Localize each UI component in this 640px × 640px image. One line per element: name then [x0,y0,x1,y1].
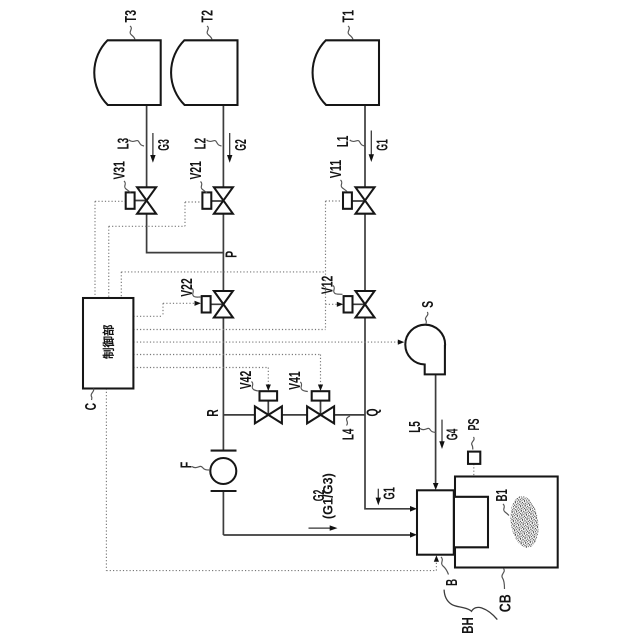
svg-text:T2: T2 [200,10,217,23]
svg-text:G3: G3 [156,139,173,151]
svg-text:V41: V41 [287,371,304,390]
svg-text:V11: V11 [328,159,345,178]
svg-text:Q: Q [365,409,382,417]
svg-text:L5: L5 [407,421,424,433]
svg-text:G1: G1 [375,139,392,151]
svg-text:B1: B1 [494,489,511,502]
svg-text:G1: G1 [382,487,399,500]
svg-text:(G1/G3): (G1/G3) [321,473,336,519]
svg-text:B: B [444,579,461,586]
svg-text:BH: BH [460,617,477,634]
svg-text:S: S [420,301,437,308]
svg-text:V22: V22 [179,278,196,297]
svg-text:CB: CB [498,594,515,612]
svg-text:F: F [179,462,196,469]
svg-text:V31: V31 [111,161,128,180]
svg-text:P: P [224,251,241,258]
svg-text:T3: T3 [123,10,140,23]
svg-text:L4: L4 [340,428,357,440]
svg-text:V42: V42 [238,371,255,390]
svg-text:G2: G2 [233,139,250,151]
svg-text:G4: G4 [445,428,462,440]
svg-text:C: C [83,403,100,411]
svg-text:V12: V12 [319,276,336,295]
svg-text:V21: V21 [188,161,205,180]
svg-text:PS: PS [466,419,483,431]
svg-text:L3: L3 [115,138,132,150]
svg-text:R: R [205,409,222,417]
svg-text:L1: L1 [335,135,352,147]
svg-text:制御部: 制御部 [102,324,116,359]
svg-text:L2: L2 [192,138,209,150]
svg-text:T1: T1 [341,10,358,23]
